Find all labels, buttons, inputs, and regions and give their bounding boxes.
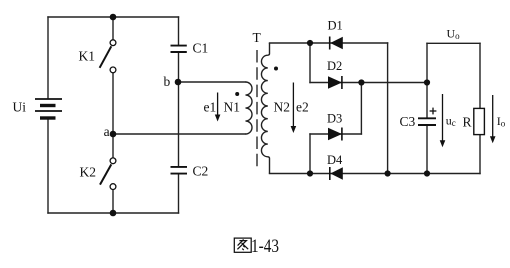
svg-text:K2: K2	[80, 165, 97, 180]
svg-text:D3: D3	[327, 112, 342, 126]
svg-text:C2: C2	[193, 164, 209, 179]
svg-text:a: a	[104, 124, 110, 139]
svg-text:N2: N2	[274, 100, 291, 115]
svg-text:e2: e2	[296, 100, 309, 115]
svg-text:C1: C1	[193, 41, 209, 56]
svg-text:uc: uc	[446, 114, 456, 129]
svg-text:R: R	[463, 115, 472, 130]
svg-text:D4: D4	[327, 153, 343, 167]
svg-text:T: T	[253, 30, 262, 45]
svg-text:Ui: Ui	[13, 100, 27, 115]
svg-text:b: b	[164, 74, 171, 89]
svg-text:Uo: Uo	[447, 27, 461, 42]
svg-text:Io: Io	[497, 114, 506, 129]
svg-text:N1: N1	[224, 100, 241, 115]
svg-text:C3: C3	[400, 114, 416, 129]
svg-text:1-43: 1-43	[251, 237, 279, 257]
svg-text:D2: D2	[327, 59, 342, 73]
svg-text:e1: e1	[204, 100, 217, 115]
svg-text:D1: D1	[328, 19, 343, 33]
svg-text:K1: K1	[79, 49, 96, 64]
